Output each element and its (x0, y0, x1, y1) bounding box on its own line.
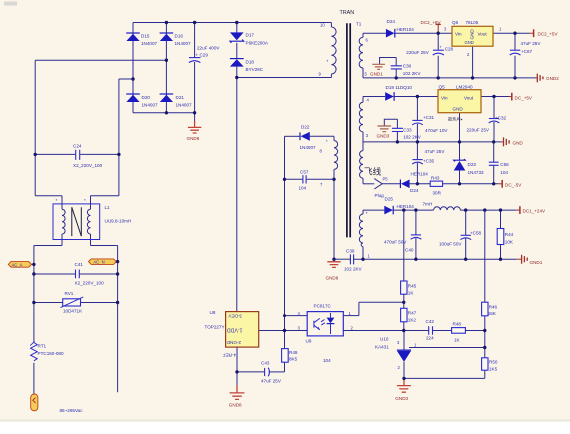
svg-text:D20: D20 (142, 95, 151, 100)
svg-text:C43: C43 (261, 361, 270, 366)
svg-text:100uF 50V: 100uF 50V (439, 242, 462, 247)
svg-text:PTC150-080: PTC150-080 (38, 351, 64, 356)
svg-text:470uF 10V: 470uF 10V (425, 128, 448, 133)
svg-text:GND: GND (453, 107, 464, 112)
svg-text:U8: U8 (210, 310, 216, 315)
svg-text:PC817C: PC817C (314, 304, 332, 309)
svg-text:Vin: Vin (455, 32, 462, 37)
svg-text:DC_-5V: DC_-5V (505, 183, 522, 188)
svg-text:Q5: Q5 (439, 84, 446, 89)
svg-text:D23: D23 (468, 162, 477, 167)
svg-text:D16: D16 (175, 34, 184, 39)
svg-text:Vin: Vin (441, 96, 448, 101)
svg-text:78L05: 78L05 (466, 20, 479, 25)
svg-text:102 2KV: 102 2KV (403, 71, 422, 76)
svg-text:U9: U9 (306, 339, 312, 344)
svg-text:DC1_+24V: DC1_+24V (523, 209, 547, 214)
svg-text:*: * (84, 198, 86, 203)
svg-text:1N4733: 1N4733 (468, 170, 485, 175)
svg-text:Vout: Vout (464, 96, 474, 101)
svg-text:R45: R45 (408, 284, 417, 289)
svg-text:HER104: HER104 (397, 27, 415, 32)
svg-text:+C35: +C35 (423, 159, 435, 164)
svg-text:RV1: RV1 (65, 291, 74, 296)
svg-text:+C67: +C67 (521, 49, 533, 54)
svg-text:GND3: GND3 (395, 396, 408, 401)
svg-text:2-GND: 2-GND (226, 340, 241, 345)
svg-text:1N4007: 1N4007 (141, 41, 158, 46)
svg-text:C39: C39 (346, 249, 355, 254)
svg-text:C41: C41 (75, 262, 84, 267)
svg-text:TOP227Y: TOP227Y (205, 325, 225, 330)
svg-text:R50: R50 (489, 360, 498, 365)
svg-text:BYV26C: BYV26C (246, 67, 264, 72)
svg-text:DC_+5V: DC_+5V (515, 96, 533, 101)
svg-text:+C32: +C32 (495, 116, 507, 121)
svg-text:R44: R44 (505, 232, 514, 237)
svg-text:飞线: 飞线 (364, 166, 382, 177)
svg-text:P6KE200A: P6KE200A (246, 41, 269, 46)
svg-text:DC2_+5V: DC2_+5V (538, 32, 559, 37)
svg-text:X2_220V_100: X2_220V_100 (73, 163, 103, 168)
svg-text:224: 224 (426, 336, 434, 341)
svg-text:散热片▸: 散热片▸ (448, 116, 463, 123)
svg-text:AC_N: AC_N (94, 260, 105, 265)
svg-text:D17: D17 (246, 33, 255, 38)
svg-text:GND1: GND1 (530, 260, 543, 265)
svg-text:47uF 25V: 47uF 25V (521, 41, 542, 46)
svg-text:C30: C30 (403, 64, 412, 69)
svg-text:T1: T1 (356, 22, 362, 27)
svg-text:1N4007: 1N4007 (175, 41, 192, 46)
svg-text:X2_220V_100: X2_220V_100 (75, 281, 105, 286)
svg-text:D24: D24 (387, 19, 396, 24)
svg-text:1K: 1K (454, 338, 461, 343)
svg-text:U10: U10 (380, 337, 389, 342)
svg-text:22uF 400V: 22uF 400V (197, 46, 220, 51)
svg-text:C57: C57 (300, 170, 309, 175)
svg-text:GND: GND (513, 141, 524, 146)
svg-text:HER104: HER104 (411, 172, 429, 177)
svg-text:D18: D18 (246, 60, 255, 65)
svg-text:UU9.8-10mH: UU9.8-10mH (105, 219, 132, 224)
svg-text:KA431: KA431 (375, 345, 389, 350)
svg-text:47uF 25V: 47uF 25V (425, 149, 446, 154)
svg-text:102 2KV: 102 2KV (403, 135, 422, 140)
svg-text:GND: GND (465, 40, 474, 45)
svg-text:104: 104 (323, 358, 331, 363)
svg-text:15K: 15K (488, 311, 497, 316)
svg-text:10D471K: 10D471K (63, 309, 83, 314)
svg-text:HER104: HER104 (397, 204, 415, 209)
svg-text:DC2_+8V: DC2_+8V (421, 20, 442, 25)
svg-text:GND8: GND8 (187, 136, 200, 141)
svg-text:10K: 10K (505, 240, 514, 245)
svg-text:30R: 30R (433, 191, 442, 196)
svg-text:AC_A: AC_A (12, 262, 23, 267)
svg-text:RT1: RT1 (38, 344, 47, 349)
svg-text:1K2: 1K2 (408, 318, 417, 323)
svg-text:D24: D24 (410, 188, 419, 193)
svg-text:Q6: Q6 (452, 20, 459, 25)
svg-text:D25: D25 (385, 197, 394, 202)
svg-text:+C58: +C58 (470, 231, 482, 236)
svg-text:GND3: GND3 (377, 134, 390, 139)
svg-text:C42: C42 (426, 319, 435, 324)
svg-text:D19 11DQ10: D19 11DQ10 (386, 85, 413, 90)
svg-text:C40: C40 (405, 248, 414, 253)
svg-text:1K: 1K (408, 291, 415, 296)
svg-text:4-REF: 4-REF (223, 353, 236, 358)
svg-text:GND8: GND8 (326, 276, 339, 281)
svg-text:10: 10 (320, 23, 325, 28)
svg-text:C24: C24 (73, 144, 82, 149)
svg-text:D21: D21 (176, 95, 185, 100)
svg-text:Vout: Vout (478, 32, 488, 37)
svg-text:8K5: 8K5 (289, 357, 298, 362)
svg-text:LM2940: LM2940 (456, 84, 473, 89)
svg-text:C33: C33 (403, 128, 412, 133)
svg-text:R43: R43 (431, 176, 440, 181)
svg-text:3-DEV: 3-DEV (228, 314, 242, 319)
svg-text:*: * (56, 198, 58, 203)
svg-text:GND1: GND1 (370, 72, 383, 77)
svg-text:+ C29: + C29 (196, 53, 209, 58)
svg-text:1N4007: 1N4007 (176, 103, 193, 108)
svg-text:GND8: GND8 (229, 403, 242, 408)
svg-text:GND: GND (470, 29, 475, 40)
svg-text:470uF 50V: 470uF 50V (384, 240, 407, 245)
svg-text:220uF 25V: 220uF 25V (406, 50, 429, 55)
svg-text:C56: C56 (500, 162, 509, 167)
svg-text:1K5: 1K5 (489, 367, 498, 372)
svg-text:R49: R49 (289, 350, 298, 355)
svg-text:D22: D22 (301, 125, 310, 130)
svg-text:7mH: 7mH (423, 202, 433, 207)
svg-text:D15: D15 (141, 34, 150, 39)
svg-text:220uF 25V: 220uF 25V (467, 128, 490, 133)
svg-text:47uF 25V: 47uF 25V (261, 379, 282, 384)
svg-text:104: 104 (500, 170, 508, 175)
svg-text:R46: R46 (489, 305, 498, 310)
svg-text:+C31: +C31 (423, 115, 435, 120)
svg-text:C28: C28 (445, 47, 454, 52)
svg-text:GND2: GND2 (546, 76, 559, 81)
svg-text:R48: R48 (453, 322, 462, 327)
svg-text:P5: P5 (383, 177, 389, 182)
svg-text:1-VDD: 1-VDD (227, 327, 243, 333)
svg-text:L1: L1 (105, 205, 111, 210)
svg-text:TRAN: TRAN (340, 10, 355, 16)
svg-text:85~265Vac: 85~265Vac (60, 408, 84, 413)
svg-text:104: 104 (299, 185, 307, 190)
svg-text:1N4007: 1N4007 (300, 145, 317, 150)
svg-text:Plug: Plug (375, 193, 385, 198)
svg-text:1N4007: 1N4007 (142, 103, 159, 108)
svg-text:102 2KV: 102 2KV (344, 267, 363, 272)
svg-text:R47: R47 (408, 311, 417, 316)
